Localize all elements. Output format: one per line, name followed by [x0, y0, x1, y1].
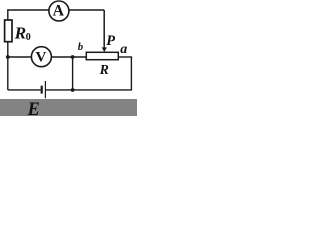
label R0	[14, 24, 31, 43]
resistor R0	[5, 20, 12, 42]
wire left vertical upper stub	[7, 9, 9, 19]
svg-text:R: R	[14, 24, 27, 43]
wire bottom right	[46, 89, 131, 91]
gray page band at bottom	[0, 99, 137, 116]
wire top-right horizontal	[70, 9, 105, 11]
junction dot middle bottom	[71, 88, 75, 92]
ammeter A1	[49, 1, 69, 21]
battery positive plate (long)	[44, 81, 46, 98]
svg-text:a: a	[120, 42, 127, 57]
svg-text:R: R	[99, 62, 109, 77]
svg-text:V: V	[35, 49, 46, 65]
wire bottom left	[8, 89, 41, 91]
svg-text:E: E	[27, 100, 40, 116]
svg-text:b: b	[78, 41, 84, 53]
junction dot middle top	[71, 55, 75, 59]
wire top-left horizontal	[8, 9, 49, 11]
svg-text:P: P	[106, 33, 115, 49]
wire voltmeter row left	[8, 56, 31, 58]
slider arrowhead P	[102, 47, 107, 52]
background	[0, 0, 137, 116]
voltmeter V1	[31, 47, 51, 67]
junction dot left	[6, 55, 10, 59]
battery negative plate (short)	[41, 86, 43, 94]
wire voltmeter row right	[52, 56, 87, 58]
wire left vertical lower	[7, 42, 9, 90]
svg-text:0: 0	[26, 32, 31, 43]
rheostat R	[86, 52, 118, 59]
wire rheostat right stub	[118, 56, 132, 58]
wire right vertical	[130, 57, 132, 91]
wire slider vertical	[103, 10, 105, 49]
svg-text:A: A	[53, 3, 65, 20]
wire middle vertical	[72, 57, 74, 90]
